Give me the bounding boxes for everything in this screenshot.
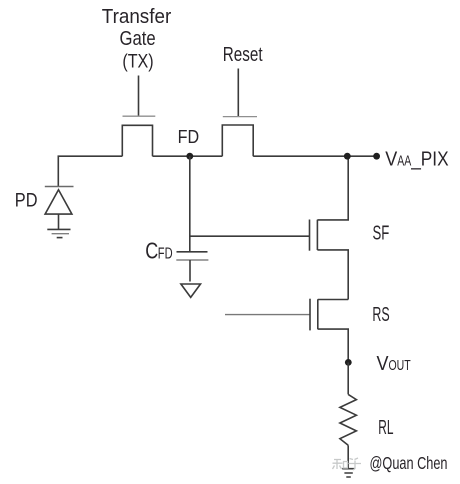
svg-text:Reset: Reset <box>223 44 263 66</box>
svg-text:RL: RL <box>378 417 393 439</box>
transistor RST channel <box>222 125 253 156</box>
svg-text:Gate: Gate <box>120 28 156 50</box>
wire FD down to capacitor <box>189 156 191 252</box>
transistor TX gate lead wire <box>138 76 140 116</box>
svg-text:Transfer: Transfer <box>102 6 172 28</box>
transistor SF channel bar <box>316 220 318 250</box>
svg-text:VOUT: VOUT <box>377 353 411 375</box>
wire VOUT to resistor RL <box>347 362 349 394</box>
node junction dot VAA <box>344 153 351 160</box>
ground PD <box>47 228 70 230</box>
label CFD <box>145 238 172 264</box>
node VOUT dot <box>345 359 352 366</box>
transistor RS source wire to VOUT <box>318 329 348 362</box>
transistor RST gate bar <box>223 116 257 118</box>
wire FD net (TX drain to Reset source) <box>153 155 223 157</box>
svg-text:C: C <box>145 238 158 264</box>
wire PD anode to ground <box>58 214 60 229</box>
signal ground triangle <box>181 284 201 297</box>
transistor SF source wire to RS drain <box>317 250 348 300</box>
svg-text:FD: FD <box>178 127 200 147</box>
resistor RL <box>340 394 357 445</box>
svg-text:@Quan Chen: @Quan Chen <box>370 453 448 473</box>
label Transfer Gate (TX) <box>102 6 172 73</box>
svg-text:SF: SF <box>373 223 390 245</box>
ground RL <box>342 469 355 477</box>
capacitor CFD top plate <box>177 251 208 253</box>
photodiode PD triangle <box>45 190 72 214</box>
photodiode PD cathode bar <box>45 186 74 188</box>
node terminal dot VAA_PIX <box>373 153 380 160</box>
transistor SF gate bar <box>309 220 311 251</box>
wire RL to ground <box>347 445 349 468</box>
wire TX source to photodiode <box>58 156 122 186</box>
svg-text:VAA_PIX: VAA_PIX <box>385 149 448 171</box>
svg-text:RS: RS <box>372 304 389 326</box>
svg-text:FD: FD <box>158 246 173 263</box>
wire Reset drain to VAA_PIX <box>253 155 376 157</box>
transistor RS gate bar <box>309 299 311 331</box>
transistor RS channel bar <box>317 299 319 329</box>
transistor SF drain wire to VAA <box>317 156 348 220</box>
transistor TX gate bar <box>123 115 156 117</box>
node FD dot <box>186 153 193 160</box>
capacitor CFD bottom plate <box>176 259 208 261</box>
transistor RS drain wire <box>318 299 348 301</box>
transistor RS gate wire <box>225 314 310 316</box>
wire FD branch to SF gate <box>190 235 310 237</box>
watermark zhihu logo glyphs <box>333 458 362 470</box>
wire capacitor to signal ground <box>189 260 191 282</box>
svg-text:PD: PD <box>15 191 38 212</box>
svg-text:(TX): (TX) <box>122 51 153 72</box>
transistor TX channel <box>122 125 152 156</box>
transistor RST gate lead wire <box>237 69 239 117</box>
